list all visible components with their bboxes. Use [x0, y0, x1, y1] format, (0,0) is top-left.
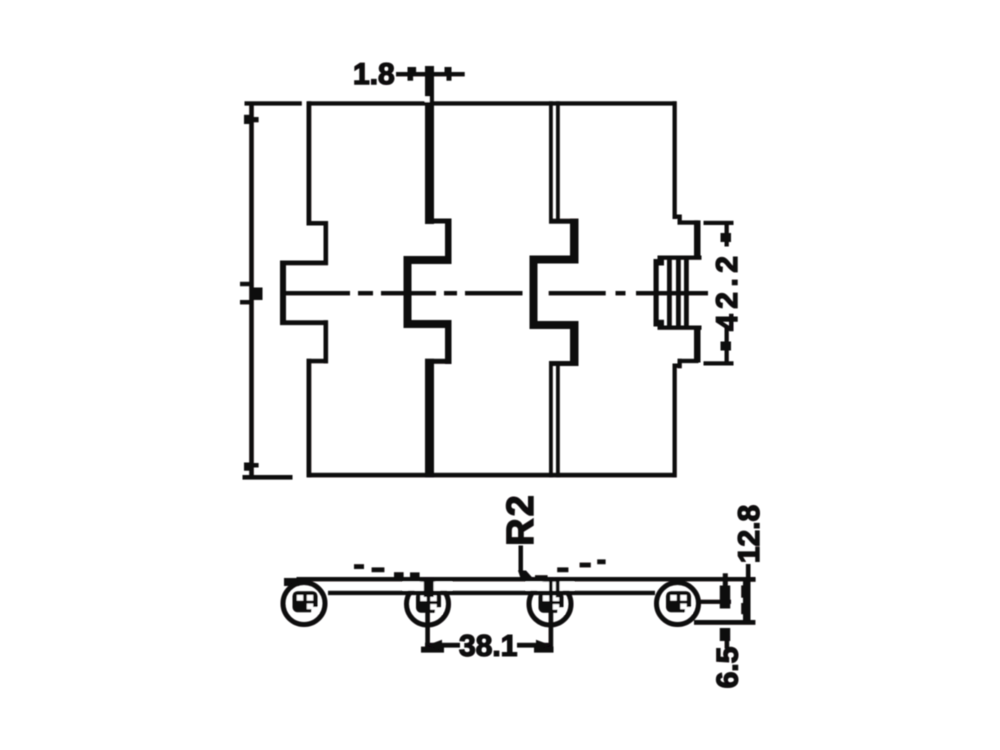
barrel left wall corner step top — [658, 258, 665, 266]
6.5 upper arrow blob — [720, 586, 730, 609]
hinge gap lines at pin 3 (boundary 2-3 projection) — [549, 577, 553, 597]
plate 1 left edge: step at y223 — [307, 221, 329, 226]
6.5 lower stem — [725, 636, 730, 649]
6.5 text (rotated) — [717, 647, 738, 687]
boundary 1-2 step at y361 — [425, 359, 452, 364]
boundary 1-2 knuckle bottom wall — [404, 320, 452, 328]
plate 3 right edge step jog A — [673, 215, 682, 219]
42.2 dimension vertical line upper segment — [725, 224, 729, 247]
R2 leader arrow — [518, 571, 534, 580]
12.8 arrow blob A — [741, 585, 746, 597]
boundary 2-3 knuckle bottom wall — [530, 321, 579, 329]
top edge extension segment (left of plate) — [245, 101, 302, 105]
boundary plates 1-2: gap line above plate (1.8 dim target) — [425, 66, 434, 104]
right end box right wall — [743, 581, 748, 621]
38.1 right arrow — [536, 640, 551, 651]
left dim mid text blob — [250, 288, 263, 301]
12.8 arrow blob B — [741, 603, 746, 614]
bottom edge extension segment — [243, 475, 293, 480]
42.2 dimension: top extension line — [704, 221, 734, 225]
boundary plates 2-3: upper thin vertical A — [549, 101, 553, 222]
centerline dash-dot through top view — [281, 291, 350, 295]
boundary 2-3 knuckle top wall — [530, 256, 579, 264]
boundary 2-3 step at y363 — [549, 361, 579, 366]
plate bottom edge — [308, 473, 677, 478]
12.8 dimension line — [746, 564, 751, 621]
pin 3 top arc mask (hidden behind bar) — [526, 582, 574, 591]
plate 1 left edge: step at y361 — [307, 359, 329, 364]
plate 1 left edge: knuckle vertical — [280, 261, 286, 326]
pin 3 core — [539, 592, 564, 613]
left dim top arrow tick — [252, 117, 259, 122]
1.8 text — [355, 63, 394, 84]
plate 1 left edge: step at y323 — [280, 320, 328, 325]
plate 3 right edge upper vertical — [673, 101, 677, 219]
phantom dash line left (descending) — [354, 564, 364, 569]
1.8 dimension line at top — [396, 72, 465, 76]
boundary 2-3 step at y221 — [549, 219, 579, 224]
boundary 2-3 knuckle left wall — [530, 256, 538, 330]
6.5 lower arrow blob — [720, 628, 730, 641]
42.2 bottom extension line — [704, 361, 734, 365]
boundary 1-2 knuckle top wall — [404, 256, 452, 264]
pin4 center extension line — [699, 600, 731, 604]
6.5 dimension upper stem — [723, 573, 728, 602]
left overall dimension line vertical — [249, 103, 254, 475]
boundary 2-3 notch vertical upper — [570, 219, 579, 264]
plate top edge — [308, 101, 677, 105]
left dim mid tick lower — [240, 300, 250, 304]
left dim bottom arrow tick — [252, 463, 258, 468]
boundary 2-3 lower thin vertical B — [556, 361, 560, 477]
pin 2 core — [416, 592, 441, 613]
42.2 bottom arrow — [721, 342, 732, 351]
side bar top line — [297, 577, 556, 581]
plate 1 left edge: notch vertical lower — [324, 320, 329, 363]
plate 3 right edge step jog B2 vertical — [678, 359, 682, 369]
pin 3 ring — [529, 583, 571, 625]
barrel internal line 1 — [667, 259, 672, 328]
pin 1 core — [293, 591, 318, 612]
side bar bottom line — [328, 591, 655, 595]
pin 4 core — [666, 591, 691, 612]
boundary 2-3: upper thin vertical B — [556, 101, 560, 222]
barrel left wall corner step bottom — [658, 320, 665, 328]
R2 text (rotated) — [506, 497, 533, 544]
12.8 top ext tick — [746, 578, 756, 582]
white notch in gap line — [425, 97, 430, 103]
pin 1 ring — [283, 583, 325, 625]
plate 3 right edge step jog A2 — [673, 364, 682, 368]
plate 1 left edge: upper vertical — [307, 101, 312, 225]
barrel top line — [658, 256, 702, 260]
1.8 left tick upper — [408, 67, 417, 72]
42.2 text (rotated) — [716, 257, 737, 330]
42.2 top arrow — [721, 233, 732, 242]
pin 2 top arc mask (hidden behind bar) — [403, 582, 452, 591]
plate 3 right edge step horizontal at y361 — [678, 359, 699, 363]
left dim mid tick upper — [240, 282, 250, 286]
pin 2 ring — [407, 583, 449, 625]
phantom dash line right (ascending) — [535, 575, 548, 580]
barrel internal line 3 — [684, 259, 689, 328]
boundary 1-2 knuckle left wall — [404, 256, 412, 328]
plate 3 right edge step horizontal at y222 — [678, 220, 699, 224]
38.1 left elbow foot — [421, 647, 444, 653]
pin 4 ring — [657, 583, 699, 625]
boundary 1-2 step at y221 — [425, 219, 452, 224]
plate 3 right edge vertical above barrel — [694, 220, 701, 258]
42.2 dimension vertical line mid segment (between text glyphs) — [725, 327, 729, 362]
38.1 right extension vertical — [549, 612, 554, 648]
R2 leader line — [519, 546, 524, 573]
right end box bottom — [694, 620, 755, 625]
38.1 left arrow — [427, 640, 442, 651]
boundary 2-3 lower thin vertical A — [549, 361, 553, 477]
plate 3 right edge vertical below barrel — [694, 327, 701, 363]
barrel internal line 2 — [676, 259, 681, 328]
barrel left wall — [654, 259, 659, 327]
1.8 right tick upper — [445, 67, 452, 72]
38.1 text — [460, 635, 517, 656]
boundary 1-2 lower thick vertical — [425, 359, 434, 478]
plate 3 right edge step jog B vertical — [678, 215, 682, 225]
boundary 2-3 notch vertical lower — [570, 321, 579, 366]
left dim top arrow blob — [244, 115, 252, 124]
plate 3 right edge lower vertical — [673, 364, 677, 478]
plate 1 left edge: step at y263 — [280, 261, 328, 266]
38.1 dimension: left extension vertical — [425, 612, 430, 648]
38.1 dim line right segment — [517, 643, 553, 648]
1.8 right tick lower — [447, 76, 452, 81]
side bar left end step — [284, 578, 299, 586]
38.1 dim line left segment — [425, 643, 460, 648]
plate 1 left edge: notch vertical upper — [324, 221, 329, 265]
12.8 text (rotated) — [738, 506, 759, 562]
left dim bottom arrow blob — [244, 463, 252, 471]
hinge gap line at pin 2 (boundary 1-2 projection) — [424, 577, 434, 597]
barrel bottom line — [658, 326, 702, 330]
1.8 left tick lower — [408, 76, 414, 81]
boundary 1-2 notch vertical upper — [445, 219, 452, 264]
plate 1 left edge: lower vertical — [307, 359, 312, 478]
boundary 1-2 upper thick vertical — [425, 103, 434, 224]
boundary 1-2 notch vertical lower — [445, 320, 452, 364]
38.1 right elbow foot — [534, 647, 554, 653]
